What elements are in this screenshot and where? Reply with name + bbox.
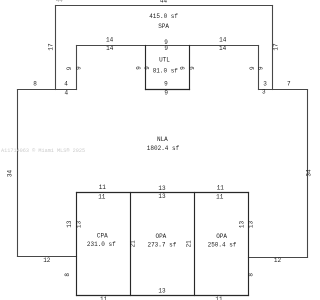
svg-text:9: 9: [135, 66, 142, 70]
svg-text:NLA: NLA: [157, 136, 168, 143]
svg-text:13: 13: [66, 220, 73, 228]
svg-text:11: 11: [99, 184, 107, 191]
wire NLA left outer wall: [17, 90, 19, 257]
svg-text:4: 4: [64, 90, 68, 97]
wire divider OPA/OPA: [194, 193, 196, 296]
wire bottom-left step: [18, 256, 77, 258]
svg-text:3: 3: [263, 81, 267, 88]
svg-text:415.0 sf: 415.0 sf: [149, 13, 178, 20]
svg-text:11: 11: [215, 296, 223, 300]
svg-text:9: 9: [66, 66, 73, 70]
wire divider CPA/OPA: [130, 193, 132, 296]
svg-text:13: 13: [76, 221, 83, 229]
svg-text:9: 9: [75, 66, 82, 70]
svg-text:7: 7: [287, 81, 291, 88]
svg-text:8: 8: [64, 273, 71, 277]
svg-text:21: 21: [130, 240, 137, 248]
svg-text:A11714063 © Miami MLS® 2025: A11714063 © Miami MLS® 2025: [1, 147, 85, 154]
svg-text:273.7 sf: 273.7 sf: [147, 241, 176, 248]
svg-text:9: 9: [180, 66, 187, 70]
svg-text:14: 14: [219, 37, 227, 44]
wire rooms top: [77, 192, 249, 194]
wire SPA bottom / NLA top: [77, 45, 259, 47]
wire SPA right wall: [272, 6, 274, 90]
wire UTL left wall: [145, 46, 147, 90]
svg-text:OPA: OPA: [155, 233, 166, 240]
svg-text:34: 34: [306, 169, 313, 177]
svg-text:9: 9: [164, 81, 168, 88]
wire rooms right wall: [248, 193, 250, 296]
svg-text:81.0 sf: 81.0 sf: [153, 68, 179, 75]
svg-text:9: 9: [249, 66, 256, 70]
svg-text:4: 4: [64, 81, 68, 88]
svg-text:13: 13: [239, 221, 246, 229]
svg-text:17: 17: [48, 43, 55, 51]
svg-text:13: 13: [248, 221, 255, 229]
svg-text:UTL: UTL: [159, 57, 170, 64]
svg-text:17: 17: [273, 43, 280, 51]
svg-text:12: 12: [43, 257, 51, 264]
svg-text:231.0 sf: 231.0 sf: [87, 241, 116, 248]
svg-text:13: 13: [158, 193, 166, 200]
svg-text:13: 13: [158, 288, 166, 295]
wire inner left wall x=76.4: [76, 46, 78, 90]
svg-text:34: 34: [7, 170, 14, 178]
svg-text:11: 11: [216, 193, 224, 200]
svg-text:OPA: OPA: [216, 233, 227, 240]
svg-text:9: 9: [164, 45, 168, 52]
svg-text:44: 44: [160, 0, 168, 4]
svg-text:9: 9: [189, 66, 196, 70]
wire UTL right wall: [189, 46, 191, 90]
wire inner right wall x=259.6: [258, 46, 260, 90]
svg-text:44: 44: [56, 0, 64, 4]
svg-text:9: 9: [164, 90, 168, 97]
svg-text:11: 11: [100, 296, 108, 300]
svg-text:13: 13: [158, 185, 166, 192]
svg-text:9: 9: [144, 66, 151, 70]
svg-text:14: 14: [106, 36, 114, 43]
svg-text:11: 11: [217, 184, 225, 191]
svg-text:1802.4 sf: 1802.4 sf: [147, 145, 180, 152]
svg-text:9: 9: [257, 66, 264, 70]
wire UTL bottom: [146, 89, 190, 91]
svg-text:8: 8: [33, 81, 37, 88]
svg-text:8: 8: [247, 273, 254, 277]
wire left step at y=89: [18, 89, 77, 91]
wire CPA left wall: [76, 193, 78, 296]
svg-text:3: 3: [262, 89, 266, 96]
svg-text:14: 14: [106, 45, 114, 52]
svg-text:250.4 sf: 250.4 sf: [208, 241, 237, 248]
wire NLA right outer wall: [307, 90, 309, 258]
svg-text:14: 14: [219, 45, 227, 52]
svg-text:12: 12: [274, 257, 282, 264]
svg-text:CPA: CPA: [97, 233, 108, 240]
svg-text:SPA: SPA: [158, 23, 169, 30]
svg-text:11: 11: [98, 193, 106, 200]
wire right step at y=89: [259, 89, 308, 91]
wire rooms bottom: [77, 295, 249, 297]
wire SPA left wall: [55, 6, 57, 90]
svg-text:21: 21: [186, 240, 193, 248]
wire top edge of SPA: [56, 5, 273, 7]
wire bottom-right step: [249, 257, 308, 259]
